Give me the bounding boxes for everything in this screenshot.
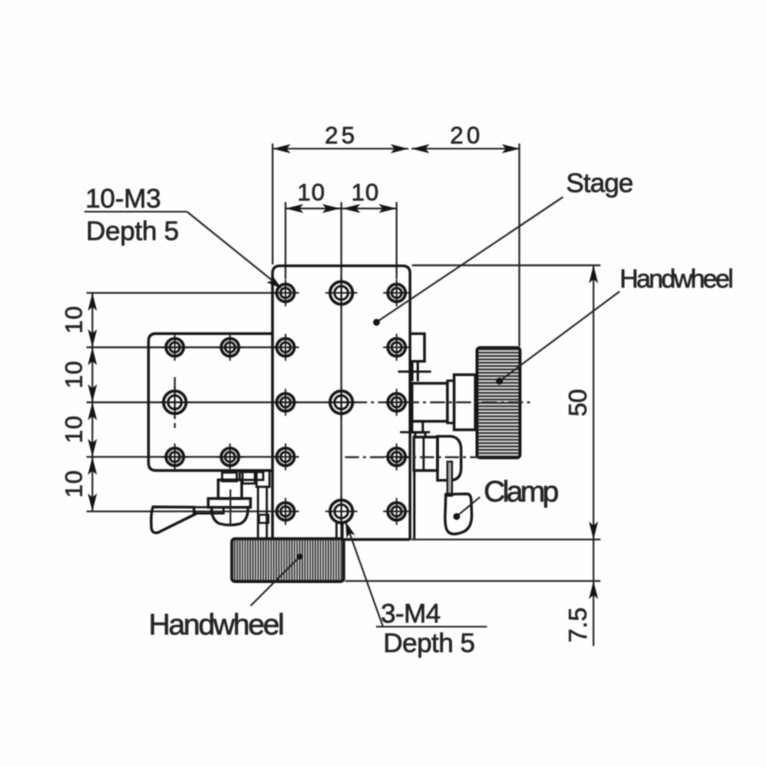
extension line: y=581 right (wheel bottom)	[345, 580, 601, 582]
right handwheel knurled	[477, 348, 520, 458]
arrow 25 right	[391, 144, 409, 153]
hole left (174.8,456.9)	[161, 443, 188, 470]
hole left (230,347.3)	[217, 334, 244, 361]
arrow 20 right	[502, 144, 520, 153]
step rect 2 below block	[415, 432, 425, 437]
clamp leader line	[457, 497, 480, 516]
bottom clamp block	[218, 480, 242, 499]
hole main (396.6,347.3)	[383, 334, 410, 361]
left dim arrows row3 pair	[88, 384, 97, 402]
centerline: left plate middle hole vertical dash-dot	[174, 377, 176, 428]
stage leader line	[376, 197, 563, 323]
bottom clamp wing lever	[151, 507, 196, 533]
handwheel bottom leader line	[251, 557, 300, 606]
hole left (174.8,347.3)	[161, 334, 188, 361]
svg-text:10: 10	[61, 361, 88, 388]
handwheel right leader line	[500, 291, 620, 381]
hole main (396.6,402.3)	[383, 389, 410, 416]
bottom clamp flange	[208, 499, 250, 508]
svg-text:10: 10	[61, 306, 88, 333]
3-M4 leader line	[346, 524, 383, 627]
arrow 10 mid right	[342, 204, 360, 213]
hole main (396.6,511.4)	[383, 498, 410, 525]
left dim arrow row5 up-to	[88, 493, 97, 511]
bottom bracket rung rect	[259, 515, 268, 523]
HOLES	[159, 277, 410, 528]
right clamp wing lever	[445, 494, 472, 534]
bottom bracket corner rect B	[257, 471, 270, 487]
svg-text:Depth 5: Depth 5	[383, 628, 475, 658]
hole main (285.5,402.3)	[272, 389, 299, 416]
saddle edge line below clamp x=414.3	[413, 471, 415, 539]
hole main (285.5,456.9)	[272, 443, 299, 470]
arrow 20 left	[412, 144, 430, 153]
centerline: col 341.3 vertical	[340, 202, 342, 538]
lower plate right guide R1	[411, 334, 425, 382]
extension line: col 396.6 (10-10 dim)	[396, 202, 398, 279]
svg-text:Handwheel: Handwheel	[620, 264, 734, 294]
bottom bracket vertical line a	[257, 487, 259, 538]
hole main (285.5,347.3)	[272, 334, 299, 361]
10-M3 underline	[84, 211, 187, 213]
DIMENSIONS	[92, 149, 593, 646]
right clamp bracket	[414, 437, 438, 470]
svg-text:10: 10	[351, 179, 378, 206]
arrow 25 left	[273, 144, 291, 153]
arrow 10 left end	[286, 204, 304, 213]
bottom clamp bracket piece 2	[240, 472, 264, 480]
shaft flange	[454, 375, 475, 430]
svg-text:3-M4: 3-M4	[381, 599, 441, 629]
LEADERS	[84, 197, 619, 627]
guide inner step R2	[417, 361, 419, 381]
7.5 bottom arrow outside	[589, 581, 598, 599]
right clamp bracket inner line	[423, 437, 425, 470]
handwheel right dot	[496, 378, 503, 385]
bottom wheel hub lines	[335, 523, 337, 539]
svg-text:25: 25	[325, 123, 355, 150]
bearing block right	[412, 383, 447, 421]
hole main (396.6,292.9)	[383, 279, 410, 306]
svg-text:10: 10	[61, 416, 88, 443]
centerline: row 457.5 dash-dot (clamp axis)	[345, 456, 481, 458]
svg-text:Stage: Stage	[566, 168, 634, 198]
bottom clamp stem bar	[194, 507, 224, 513]
extension line: row 511.4 left	[87, 510, 272, 512]
centerline: row 402.3 solid left part	[87, 401, 353, 403]
svg-text:Depth 5: Depth 5	[86, 216, 179, 246]
10-M3 leader line	[187, 212, 279, 286]
right clamp rod	[447, 462, 452, 496]
bottom handwheel knurled	[232, 539, 344, 582]
lower stage plate (left, rounded)	[149, 334, 273, 471]
svg-text:7.5: 7.5	[565, 607, 593, 642]
extension line: wheel right x=519.3	[518, 144, 520, 347]
3-M4 underline	[376, 626, 487, 628]
3-M4 arrowhead	[346, 522, 356, 539]
dim line 10-10	[286, 208, 397, 210]
clamp dot	[453, 513, 460, 520]
hole main big (341.3,292.9)	[325, 277, 357, 309]
hole main big (341.3,402.3)	[325, 386, 357, 418]
left dim arrows row2 pair	[88, 329, 97, 347]
svg-text:Clamp: Clamp	[484, 476, 559, 509]
hole main (396.6,456.9)	[383, 443, 410, 470]
arrow 10 right end	[379, 204, 397, 213]
hidden guide line y=371.6	[398, 371, 431, 373]
hole main big (341.3,511.4)	[325, 495, 357, 527]
main plate bottom edge	[273, 538, 411, 541]
svg-text:10: 10	[297, 179, 324, 206]
svg-text:10: 10	[61, 470, 88, 497]
hole left (230,456.9)	[217, 443, 244, 470]
left dim arrows row4 pair	[88, 439, 97, 457]
extension line: top-left plate edge x=272.6	[272, 144, 274, 265]
right clamp body	[438, 436, 462, 480]
svg-text:50: 50	[565, 389, 593, 417]
hidden guide line y=432.2	[400, 431, 430, 433]
step rect below block	[412, 421, 423, 432]
extension line: y=265.3 right (50 dim top)	[412, 264, 601, 266]
extension line: row 456.9 left	[87, 456, 277, 458]
bottom bracket vertical line b	[266, 487, 268, 538]
dim line 25	[273, 148, 409, 150]
centerline: row 402.3 dash-dot right part (over wheel)	[352, 401, 531, 403]
svg-text:10-M3: 10-M3	[85, 184, 161, 214]
bottom bracket corner rect A	[243, 471, 255, 484]
extension line: y=539.5 right (base bottom)	[411, 539, 601, 541]
handwheel bottom dot	[297, 554, 303, 560]
hole main (285.5,292.9)	[272, 279, 299, 306]
bottom clamp bracket piece 1	[222, 473, 237, 482]
50 bottom arrow	[589, 522, 598, 540]
extension line: row 292.9 left	[87, 292, 277, 294]
svg-text:Handwheel: Handwheel	[149, 609, 285, 642]
dim line right vertical	[593, 265, 595, 646]
hole main (285.5,511.4)	[272, 498, 299, 525]
bearing lip	[447, 381, 454, 423]
main stage plate	[273, 266, 411, 540]
extension line: col 285.5 (10-10 dim)	[285, 202, 287, 279]
extension line: row 347.3 left	[87, 346, 277, 348]
dim line left vertical	[91, 293, 93, 512]
50 top arrow	[589, 265, 598, 283]
bottom clamp centerline	[229, 489, 231, 526]
left dim arrows row1 down-to	[88, 293, 97, 311]
arrow 10 mid left	[322, 204, 340, 213]
svg-text:20: 20	[450, 123, 480, 150]
bottom clamp bowl body	[212, 507, 248, 525]
stage leader dot	[373, 319, 380, 326]
dim line 20	[412, 148, 520, 150]
10-M3 arrowhead	[267, 275, 282, 289]
hole left big (174.8,402.3)	[159, 386, 191, 418]
